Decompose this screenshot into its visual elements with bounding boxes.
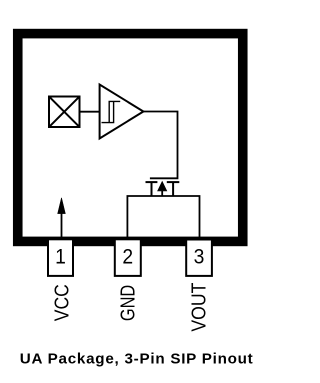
wire drain/source to pins 2 and 3 xyxy=(127,196,199,239)
svg-text:2: 2 xyxy=(122,246,133,269)
svg-text:VCC: VCC xyxy=(51,284,73,321)
pin 1 box xyxy=(48,239,73,276)
svg-text:3: 3 xyxy=(194,246,205,269)
svg-text:1: 1 xyxy=(55,246,66,269)
pin 3 box xyxy=(186,240,212,276)
package outline xyxy=(18,34,243,242)
svg-text:GND: GND xyxy=(118,285,140,321)
wire pin 1 with up arrow xyxy=(61,213,63,239)
pin 2 box xyxy=(115,239,141,276)
arrowhead xyxy=(58,198,66,214)
transistor body arrow xyxy=(158,181,167,191)
hall element X1 (crossed square) xyxy=(49,97,80,128)
svg-text:UA Package, 3-Pin SIP Pinout: UA Package, 3-Pin SIP Pinout xyxy=(20,351,254,368)
op-amp U1 (comparator triangle) xyxy=(100,85,144,139)
hysteresis symbol xyxy=(102,101,121,122)
wire hall element to comparator input xyxy=(80,111,100,113)
svg-text:VOUT: VOUT xyxy=(189,283,211,332)
transistor Q1 (n-channel MOSFET) xyxy=(146,182,180,196)
wire comparator output to gate xyxy=(143,112,178,179)
